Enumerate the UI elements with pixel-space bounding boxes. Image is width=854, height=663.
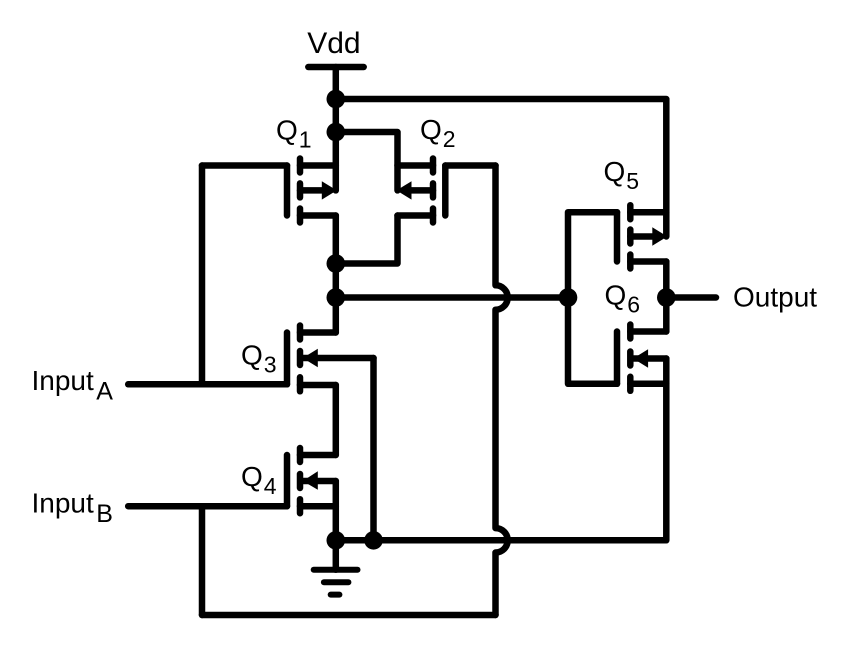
transistor Q1 <box>287 159 337 223</box>
wire node D to node OUT1 (dot3 to dot4) <box>333 264 340 298</box>
wire Q5 drain to output node to Q6 drain <box>663 262 670 332</box>
transistor Q2 <box>397 159 446 223</box>
wire inverter input bus to Q5 and Q6 gates <box>568 212 617 384</box>
wire input A bus vertical <box>199 166 206 385</box>
node inverter input junction dot5 <box>559 288 578 307</box>
Vdd power symbol <box>308 67 363 99</box>
wire input B bus vertical <box>199 506 206 615</box>
ground <box>314 540 358 594</box>
wire input B to Q2 gate vertical with crossover hops <box>496 166 508 616</box>
wire Q2 drain to node D <box>336 216 398 264</box>
wire node OUT1 down to Q3 drain <box>333 298 340 333</box>
wire Q3 body to ground node <box>370 358 377 540</box>
wire Q1 drain to node D (dot3) <box>333 216 340 264</box>
svg-text:Vdd: Vdd <box>307 27 360 60</box>
node D junction dot3 <box>327 254 346 273</box>
wire Output <box>666 294 716 301</box>
wire Q4 body and source to ground node <box>333 481 340 540</box>
wire bottom bus <box>202 612 496 619</box>
svg-text:Output: Output <box>733 282 817 313</box>
wire Q3 source to Q4 drain <box>333 385 340 455</box>
wire Q2 source tie <box>336 132 398 190</box>
transistor Q3 <box>287 326 374 392</box>
transistor Q5 <box>617 205 667 268</box>
wire Input B <box>128 503 287 510</box>
node ground junction g2 <box>364 531 383 550</box>
node ground junction g1 <box>327 531 346 550</box>
wire Q2 gate lead <box>445 162 495 169</box>
wire Q1 gate from input A bus <box>202 162 287 169</box>
node OUT1 junction dot4 <box>327 288 346 307</box>
wire Vdd rail to Q5 source column <box>336 99 667 237</box>
wire Q1 source tie <box>333 132 340 190</box>
node Vdd junction dot1 <box>327 90 346 109</box>
wire node Vdd to node S (dot1 to dot2) <box>333 99 340 132</box>
node Output junction dot6 <box>657 288 676 307</box>
wire ground rail to Q6 source column <box>336 359 667 541</box>
wire Input A <box>128 381 287 388</box>
transistor Q6 <box>617 325 666 391</box>
wire NAND output to inverter input <box>336 294 568 301</box>
transistor Q4 <box>287 448 336 513</box>
node S junction dot2 <box>327 123 346 142</box>
